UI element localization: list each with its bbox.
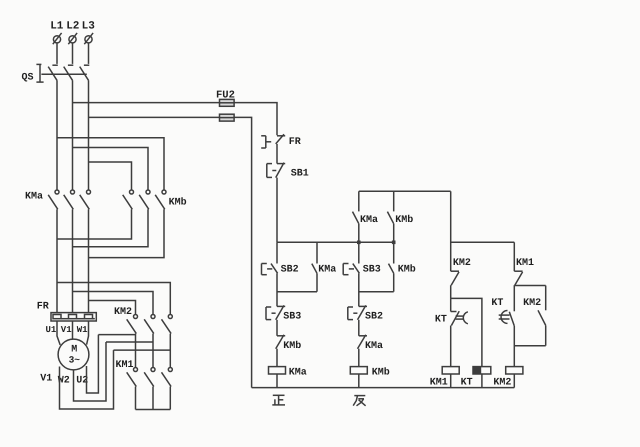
wire to KM1 contact (513, 242, 515, 271)
label KMa (main) (25, 192, 43, 203)
wire KM2 coil to bus (513, 374, 515, 388)
junction dot A (357, 241, 361, 245)
wire KT delayed to KM2 coil (513, 326, 515, 367)
terminal L2 (68, 33, 77, 44)
svg-text:KMa: KMa (365, 341, 383, 352)
label KT (NC contact) (435, 314, 447, 325)
svg-text:U1: U1 (46, 325, 57, 335)
contactor KMa main pole 3 (80, 190, 91, 209)
wire bus to SB2 (276, 242, 278, 263)
wire KT coil to bus (481, 374, 483, 388)
wire phase1 to KM2 pole3 (57, 283, 170, 315)
wire SB3 to node rev (358, 273, 360, 306)
svg-text:SB3: SB3 (283, 312, 301, 323)
pushbutton SB2 (NO start fwd) (262, 264, 278, 275)
label L3 (82, 21, 96, 33)
wire SB3 to KMb interlock (276, 320, 278, 336)
label 反 (reverse) (353, 396, 365, 406)
label SB2 (rev branch) (365, 312, 383, 323)
wire KM1 pole3 bottom (169, 387, 171, 410)
svg-text:SB3: SB3 (363, 265, 381, 276)
wire phase2 to KM2 pole2 (73, 292, 154, 315)
wire phase3 to KMb pole1 (89, 162, 132, 190)
pushbutton SB3 (NO start rev) (343, 264, 359, 275)
wire motor W2 terminal route (60, 350, 114, 409)
wire L3 to QS (88, 43, 90, 64)
contactor KM1 main pole 1 (127, 368, 138, 387)
label W1 (77, 325, 88, 335)
wire motor mid terminal route (74, 342, 107, 401)
contactor KM1 main pole 3 (162, 368, 173, 387)
terminal L3 (84, 33, 93, 44)
svg-text:V1: V1 (40, 373, 52, 384)
svg-text:KM1: KM1 (430, 378, 448, 389)
contactor KM2 main pole 1 (127, 315, 138, 334)
wire L1 to QS (56, 43, 58, 64)
contactor KMb main pole 1 (123, 190, 134, 209)
label QS (22, 73, 34, 84)
svg-text:KMa: KMa (289, 368, 307, 379)
label SB2 (fwd) (281, 265, 299, 276)
coil KMb (350, 367, 367, 374)
svg-text:L2: L2 (66, 21, 79, 33)
svg-text:KMb: KMb (398, 264, 416, 276)
wire motor U2 terminal route (87, 335, 99, 393)
contactor KMb interlock contact (NC) (276, 335, 286, 349)
wire junction link 3 (114, 349, 171, 351)
contactor KMa main pole 1 (48, 190, 59, 209)
wire W1 lead (87, 321, 89, 345)
wire KM1 pole2 bottom (152, 387, 154, 410)
svg-text:KMb: KMb (372, 367, 390, 379)
svg-text:KM1: KM1 (516, 258, 534, 269)
label W2 (58, 375, 70, 386)
wire U1 lead (57, 321, 60, 345)
thermal overload FR heater element (51, 313, 96, 321)
contactor KMa aux contact (353, 191, 359, 242)
contactor KMa main pole 2 (64, 190, 75, 209)
wire KM2 to KT coil branch (451, 298, 482, 366)
label L1 (50, 21, 64, 33)
motor M 3~ (58, 339, 89, 370)
svg-text:FR: FR (37, 301, 49, 312)
svg-text:KT: KT (491, 298, 503, 309)
wire KMb pole3 to phase3 (89, 209, 165, 257)
wire control bottom bus (252, 387, 515, 389)
switch QS linkage bar (41, 73, 86, 75)
svg-text:KT: KT (461, 378, 473, 389)
contactor KMb seal contact (389, 242, 394, 291)
wire KM2 NC to KM1 column (514, 345, 545, 347)
label V1 (top) (61, 325, 72, 335)
label L2 (66, 21, 79, 33)
label FR (contact) (289, 137, 301, 148)
wire seal rev bottom link (359, 291, 394, 293)
wire phase2 QS to KMa (72, 81, 74, 190)
wire KMa interlock to coil (358, 349, 360, 367)
fuse FU2 lower (220, 114, 235, 121)
label SB1 (291, 168, 309, 179)
wire sealing to KM2 contact (450, 191, 452, 271)
fuse FU2 upper (220, 99, 235, 106)
wire phase3 QS to KMa (88, 81, 90, 190)
terminal L1 (53, 33, 62, 44)
label KM1 (coil) (430, 378, 448, 389)
label U1 (46, 325, 57, 335)
relay contact KT (NC delayed) (451, 298, 468, 325)
coil KMa (269, 367, 286, 374)
svg-text:KM2: KM2 (114, 307, 132, 318)
wire SB1 to bus (276, 178, 278, 243)
wire KMb coil to bus (358, 374, 360, 388)
label KMb (seal) (398, 264, 416, 276)
svg-text:KM2: KM2 (523, 298, 541, 309)
svg-text:V1: V1 (61, 325, 72, 335)
wire phase3 to KM2 pole1 (89, 301, 136, 315)
pushbutton SB3 (NC interlock) (266, 305, 285, 319)
contactor KM2 interlock contact (NC) (538, 286, 546, 346)
svg-text:KMb: KMb (395, 214, 413, 226)
wire SB2 to KMa interlock (358, 320, 360, 336)
wire KMb pole1 to phase1 (57, 209, 132, 239)
contactor KM1 aux contact (NO) (514, 271, 522, 311)
svg-text:SB1: SB1 (291, 168, 309, 179)
svg-text:SB2: SB2 (281, 265, 299, 276)
wire KMa coil to bus (276, 374, 278, 388)
switch QS pole 3 (80, 65, 90, 81)
contactor KMb aux contact (387, 191, 393, 242)
wire FU2 upper to control column (234, 103, 277, 136)
pushbutton SB2 (NC interlock rev) (348, 305, 367, 319)
wire phase1 to KMb pole3 (57, 138, 164, 190)
label V1 (bottom) (40, 373, 52, 384)
label KMa (coil) (289, 368, 307, 379)
wire phase2 to KMb pole2 (73, 148, 149, 190)
wire KMb interlock to coil (276, 349, 278, 367)
label KM1 (aux NO) (516, 258, 534, 269)
wire KM1 node to KM2 NC branch (514, 285, 545, 287)
label KMa (aux) (360, 215, 378, 226)
switch QS handle (36, 64, 43, 82)
contactor KM2 aux contact (NO) (451, 271, 459, 298)
wire phase2 KMa to FR (72, 209, 74, 313)
wire L2 to QS (72, 43, 74, 64)
label KMb (coil) (372, 367, 390, 379)
svg-text:KM2: KM2 (453, 258, 471, 269)
wire phase1 KMa to FR (56, 209, 58, 313)
label KM1 (main) (116, 360, 134, 371)
label KMa (interlock) (365, 341, 383, 352)
label KMb (interlock) (283, 340, 301, 352)
relay contact KT (NO delayed) (499, 311, 515, 326)
wire phase3 to FU2 lower (89, 116, 220, 118)
svg-text:KMa: KMa (318, 265, 336, 276)
wire phase2 to FU2 upper (73, 102, 220, 104)
wire KM1 coil to bus (450, 374, 452, 388)
wire KT contact to KM1 coil (450, 326, 452, 367)
wire KM2 pole2 bottom (152, 334, 154, 368)
wire KM1 pole1 bottom (135, 387, 137, 410)
svg-text:KMb: KMb (169, 196, 187, 208)
switch QS pole 1 (48, 65, 58, 81)
wire KM2 node to KM1 column (451, 241, 515, 243)
svg-text:KM1: KM1 (116, 360, 134, 371)
svg-text:QS: QS (22, 73, 34, 84)
contactor KM2 main pole 3 (162, 315, 173, 334)
label KM2 (NC interlock) (523, 298, 541, 309)
thermal contact FR (NC) (261, 134, 285, 148)
label KM2 (coil) (493, 378, 511, 389)
pushbutton SB1 (NC) (267, 163, 285, 178)
svg-text:W1: W1 (77, 325, 88, 335)
wire sealing line (359, 190, 451, 192)
label KT (coil) (461, 378, 473, 389)
svg-text:KMa: KMa (360, 215, 378, 226)
label KMa (seal) (318, 265, 336, 276)
wire seal fwd bottom link (277, 291, 317, 293)
contactor KMa interlock contact (NC) (358, 335, 368, 349)
label KMb (main) (169, 196, 187, 208)
svg-text:KT: KT (435, 314, 447, 325)
wire junction link 1 (98, 334, 135, 336)
svg-text:KMa: KMa (25, 192, 43, 203)
wire control feed bus (277, 241, 394, 243)
wire SB2 to node fwd (276, 273, 278, 306)
svg-text:FU2: FU2 (216, 89, 235, 101)
label 正 (forward) (272, 395, 285, 405)
svg-text:SB2: SB2 (365, 312, 383, 323)
coil KM2 (506, 367, 523, 374)
svg-text:KM2: KM2 (493, 378, 511, 389)
label SB3 (fwd branch) (283, 312, 301, 323)
contactor KMa seal contact (312, 242, 317, 291)
wire V1 lead (72, 321, 74, 339)
label FR (heater) (37, 301, 49, 312)
svg-text:L3: L3 (82, 21, 96, 33)
wire junction link 2 (106, 341, 153, 343)
label KMb (aux) (395, 214, 413, 226)
label KT (NO contact) (491, 298, 503, 309)
label SB3 (rev) (363, 265, 381, 276)
svg-text:KMb: KMb (283, 340, 301, 352)
wire KMb pole2 to phase2 (73, 209, 149, 247)
switch QS pole 2 (64, 65, 74, 81)
label U2 (76, 375, 88, 386)
wire phase1 QS to KMa (56, 81, 58, 190)
svg-text:FR: FR (289, 137, 301, 148)
coil KT (473, 367, 491, 374)
wire FU2 lower to left rail (234, 117, 252, 387)
junction dot B (392, 241, 396, 245)
wire KM2 pole1 bottom (135, 334, 137, 368)
contactor KM2 main pole 2 (144, 315, 155, 334)
label KM2 (aux NO) (453, 258, 471, 269)
wire star point bar (136, 409, 171, 411)
wire phase3 KMa to FR (88, 209, 90, 313)
svg-text:L1: L1 (50, 21, 64, 33)
wire FR to SB1 (276, 144, 278, 164)
svg-text:3~: 3~ (69, 354, 81, 365)
contactor KMb main pole 2 (139, 190, 150, 209)
contactor KMb main pole 3 (155, 190, 166, 209)
contactor KM1 main pole 2 (144, 368, 155, 387)
wire KM2 pole3 bottom (169, 334, 171, 368)
label KM2 (main) (114, 307, 132, 318)
wire bus to SB3 rev (358, 242, 360, 263)
coil KM1 (442, 367, 459, 374)
label FU2 (216, 89, 235, 101)
